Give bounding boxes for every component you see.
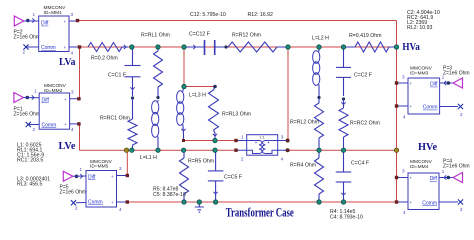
capacitor C4 (336, 150, 369, 202)
transformer pin nodes (182, 139, 290, 153)
wire HVe rail (288, 149, 397, 151)
svg-text:3: 3 (402, 169, 405, 174)
op-amp U4 MMCONV MM4 (397, 159, 464, 215)
svg-text:R=RL2 Ohm: R=RL2 Ohm (290, 120, 319, 126)
svg-text:R=RL3 Ohm: R=RL3 Ohm (222, 112, 251, 118)
wire port P2 to MM1 (24, 20, 39, 22)
svg-text:Z=1e6 Ohm: Z=1e6 Ohm (14, 35, 41, 41)
node HVa label (402, 42, 420, 53)
label LV values (17, 143, 44, 164)
inductor L1 (140, 96, 160, 161)
resistor R12 (224, 33, 288, 53)
resistor RL2 (290, 96, 324, 150)
svg-text:2: 2 (33, 127, 36, 132)
MM5 pin nodes (126, 174, 129, 204)
node LVe label (59, 141, 77, 152)
svg-text:C5: 8.387e-10: C5: 8.387e-10 (153, 192, 186, 198)
label C12 value (190, 12, 226, 18)
svg-text:4: 4 (281, 157, 284, 162)
wire LVa rail (80, 46, 397, 48)
svg-text:HVe: HVe (418, 142, 438, 153)
svg-text:R12: 16.92: R12: 16.92 (248, 12, 273, 18)
svg-text:C=C2 F: C=C2 F (354, 73, 372, 79)
svg-text:4: 4 (403, 115, 406, 120)
node HVe junctions (317, 148, 399, 152)
wire transformer feed vertical (287, 47, 289, 141)
svg-text:2: 2 (460, 207, 463, 212)
svg-text:+: + (410, 104, 413, 109)
svg-text:2: 2 (23, 50, 26, 55)
svg-text:RL2: 10.93: RL2: 10.93 (407, 25, 432, 31)
svg-text:C=C4 F: C=C4 F (351, 161, 369, 167)
svg-text:+: + (410, 81, 413, 86)
node HVe label (418, 142, 438, 153)
port P1 dot (26, 95, 35, 99)
capacitor C2 (336, 47, 372, 96)
svg-text:Z=1e6 Ohm: Z=1e6 Ohm (443, 164, 470, 170)
resistor R=0.419 Ohm (346, 33, 397, 52)
wire top rail (78, 20, 397, 22)
svg-text:L=L3 H: L=L3 H (189, 93, 206, 99)
svg-text:3: 3 (71, 90, 74, 95)
svg-text:ID=MM2: ID=MM2 (44, 88, 63, 94)
resistor R4 (290, 150, 324, 202)
svg-text:Comm: Comm (423, 105, 438, 111)
MM4 comm X (458, 199, 463, 204)
label R12 value (248, 12, 273, 18)
svg-text:HVa: HVa (402, 42, 420, 53)
svg-text:Diff: Diff (430, 82, 438, 88)
svg-text:1:1: 1:1 (259, 134, 265, 139)
MM3 pin nodes (395, 81, 398, 107)
svg-text:MMCONV: MMCONV (44, 83, 67, 89)
svg-text:R=R4 Ohm: R=R4 Ohm (290, 163, 316, 169)
svg-text:Comm: Comm (422, 201, 437, 207)
svg-text:ID=MM4: ID=MM4 (410, 164, 429, 170)
MM2 comm X (26, 122, 31, 127)
port P3 (443, 65, 470, 88)
op-amp U5 MMCONV MM5 (73, 159, 128, 212)
svg-text:+: + (64, 97, 67, 102)
svg-text:R=RC2 Ohm: R=RC2 Ohm (350, 121, 380, 127)
wire MM1-MM2 vertical (79, 47, 81, 99)
svg-text:Z=1e6 Ohm: Z=1e6 Ohm (443, 71, 470, 77)
wire bottom rail (127, 201, 396, 203)
svg-text:+: + (64, 19, 67, 24)
port P4 (443, 159, 470, 183)
svg-text:L=L2 H: L=L2 H (312, 36, 329, 42)
svg-text:R=0.419 Ohm: R=0.419 Ohm (349, 33, 381, 39)
svg-text:+: + (111, 200, 114, 205)
port P4 dot (444, 175, 450, 179)
capacitor C12 (184, 32, 226, 56)
wire node A drop (183, 47, 185, 87)
svg-text:Diff: Diff (430, 176, 438, 182)
svg-text:Z=1e6 Ohm: Z=1e6 Ohm (60, 190, 87, 196)
svg-text:1: 1 (34, 89, 37, 94)
resistor RC1 (100, 96, 137, 150)
svg-text:Transformer Case: Transformer Case (226, 206, 294, 220)
inductor L3 (177, 87, 207, 141)
resistor RL1 (141, 33, 170, 97)
svg-text:+: + (410, 200, 413, 205)
wire node A horizontal (184, 86, 215, 88)
svg-text:RL3: 456.5: RL3: 456.5 (17, 182, 42, 188)
svg-text:+: + (64, 122, 67, 127)
transformer X1 windings (247, 141, 278, 154)
svg-text:L=L1 H: L=L1 H (140, 155, 157, 161)
svg-text:R=RC1 Ohm: R=RC1 Ohm (100, 116, 130, 122)
svg-text:2: 2 (460, 112, 463, 117)
svg-text:Comm: Comm (41, 45, 56, 51)
node LVa label (59, 57, 76, 68)
svg-text:4: 4 (403, 210, 406, 215)
svg-text:3: 3 (71, 12, 74, 17)
svg-text:ID=MM5: ID=MM5 (90, 164, 109, 170)
MM5 comm X (71, 200, 76, 205)
MM4 pin nodes (395, 176, 398, 204)
svg-text:+: + (111, 174, 114, 179)
MM1 pin nodes (76, 19, 81, 49)
svg-text:MMCONV: MMCONV (410, 159, 433, 165)
svg-text:Comm: Comm (88, 199, 103, 205)
svg-text:4: 4 (71, 127, 74, 132)
node LVa junctions (130, 45, 399, 49)
svg-text:Z=1e6 Ohm: Z=1e6 Ohm (14, 112, 41, 118)
wire right bus vertical (396, 21, 398, 203)
svg-text:ID=MM3: ID=MM3 (410, 71, 429, 77)
op-amp U2 MMCONV MM2 (23, 83, 79, 132)
svg-text:1: 1 (241, 135, 244, 140)
ground (195, 200, 204, 212)
resistor R5 (180, 150, 215, 202)
label Transformer Case (226, 206, 294, 220)
capacitor C1 (108, 47, 141, 96)
port P3 dot (444, 81, 450, 85)
svg-text:MMCONV: MMCONV (410, 65, 433, 71)
MM2 pin nodes (77, 97, 80, 126)
svg-text:MMCONV: MMCONV (44, 5, 67, 11)
resistor RC2 (339, 97, 380, 150)
label HV values (407, 10, 440, 31)
wire MM5 feed vertical (126, 150, 128, 175)
svg-text:3: 3 (402, 75, 405, 80)
capacitor C5 (208, 150, 242, 202)
svg-text:C=C12 F: C=C12 F (189, 32, 210, 38)
svg-text:Diff: Diff (88, 174, 96, 180)
svg-text:4: 4 (71, 51, 74, 56)
node mid junctions (182, 84, 217, 142)
svg-text:C12: 5.795e-10: C12: 5.795e-10 (190, 12, 226, 18)
svg-text:2: 2 (241, 157, 244, 162)
wire transformer primary top (184, 140, 237, 142)
port P5 (60, 171, 87, 195)
svg-text:Diff: Diff (41, 21, 49, 27)
transformer X1 box (236, 134, 288, 161)
wire LVe rail (80, 149, 237, 151)
svg-text:LVa: LVa (59, 57, 76, 68)
svg-text:1: 1 (80, 167, 83, 172)
svg-text:Diff: Diff (42, 98, 50, 104)
port P2 dot (26, 18, 35, 22)
svg-text:LVe: LVe (59, 141, 77, 152)
svg-text:ID=MM1: ID=MM1 (44, 10, 63, 16)
svg-text:C=C5 F: C=C5 F (224, 175, 242, 181)
op-amp U1 MMCONV MM1 (23, 5, 80, 56)
svg-text:2: 2 (75, 206, 78, 211)
resistor RL3 (209, 87, 251, 141)
label L3 values (17, 177, 50, 188)
svg-text:R=R12 Ohm: R=R12 Ohm (232, 33, 261, 39)
svg-text:3: 3 (281, 135, 284, 140)
port P1 (14, 93, 41, 118)
port P5 dot (75, 174, 83, 178)
MM3 comm X (458, 104, 463, 109)
svg-text:RC1: 203.5: RC1: 203.5 (17, 158, 43, 164)
label R5C5 values (153, 187, 186, 198)
node bottom junctions (182, 200, 346, 204)
label R4C4 values (330, 209, 363, 220)
MM1 comm X (23, 44, 28, 49)
wire MM2 to LVe rail (78, 124, 81, 150)
svg-text:R=R5 Ohm: R=R5 Ohm (188, 159, 214, 165)
svg-text:4: 4 (119, 207, 122, 212)
svg-text:C4: 8.793e-10: C4: 8.793e-10 (330, 214, 363, 220)
svg-text:+: + (410, 176, 413, 181)
inductor L2 (312, 36, 329, 97)
svg-text:3: 3 (119, 166, 122, 171)
svg-text:R=RL1 Ohm: R=RL1 Ohm (141, 33, 170, 39)
svg-text:+: + (64, 45, 67, 50)
svg-text:1: 1 (33, 12, 36, 17)
svg-text:Comm: Comm (42, 123, 57, 129)
svg-text:R=0.2 Ohm: R=0.2 Ohm (91, 56, 118, 62)
node LVe junctions (124, 148, 217, 152)
op-amp U3 MMCONV MM3 (397, 65, 464, 119)
svg-text:C=C1 F: C=C1 F (108, 73, 126, 79)
resistor R=0.2 Ohm (88, 43, 128, 62)
port P2 (14, 16, 41, 41)
